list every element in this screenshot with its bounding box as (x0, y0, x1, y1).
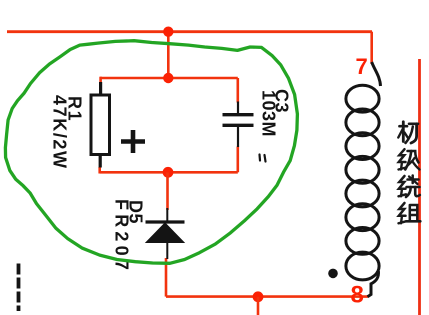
wire R1 bottom red stub (98, 167, 101, 174)
svg-text:7: 7 (356, 54, 368, 79)
svg-text:8: 8 (351, 282, 364, 309)
wire C3 bottom red lead (237, 147, 240, 173)
diode D5 (146, 208, 185, 259)
wire bottom drop to edge (257, 297, 260, 315)
node junction dot RC bottom (163, 167, 174, 178)
label 绕 (char 3) (399, 176, 420, 198)
label 初 (primary winding text char 1) (398, 122, 418, 143)
transformer phase dot (328, 269, 338, 279)
dashed core line fragment left edge (17, 264, 21, 312)
wire diode bottom red lead (165, 258, 168, 297)
stray marks below 103M (260, 155, 266, 162)
label 级 (char 2) (399, 149, 420, 169)
wire right vertical to transformer pin 7 (370, 32, 373, 64)
node junction dot bottom (253, 291, 264, 302)
wire RC loop top horizontal (100, 77, 238, 80)
wire far right vertical rail (418, 59, 421, 315)
wire bottom horizontal (166, 295, 368, 298)
wire diode top red lead (166, 172, 169, 210)
green annotation loop (5, 41, 297, 264)
capacitor C3 (223, 102, 254, 148)
transformer primary winding coil (346, 62, 381, 297)
wire R1 top red stub (99, 77, 102, 83)
wire junction vertical from top bus to RC loop (167, 32, 170, 78)
wire top horizontal bus (7, 30, 372, 33)
node junction dot RC top (163, 73, 173, 83)
resistor R1 (91, 82, 110, 168)
wire RC loop bottom horizontal (100, 171, 238, 174)
node junction dot top bus (163, 27, 173, 37)
wire C3 top red lead (237, 78, 240, 103)
plus polarity mark (121, 130, 145, 153)
label 组 (char 4) (399, 203, 421, 223)
